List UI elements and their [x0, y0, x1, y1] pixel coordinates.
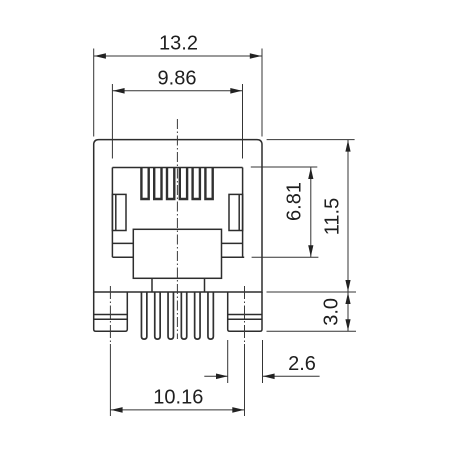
- svg-text:10.16: 10.16: [153, 386, 203, 408]
- svg-text:6.81: 6.81: [283, 182, 305, 221]
- svg-text:2.6: 2.6: [288, 353, 316, 375]
- svg-text:3.0: 3.0: [321, 298, 343, 326]
- svg-text:13.2: 13.2: [159, 32, 198, 54]
- svg-text:11.5: 11.5: [322, 198, 344, 235]
- svg-text:9.86: 9.86: [158, 67, 197, 89]
